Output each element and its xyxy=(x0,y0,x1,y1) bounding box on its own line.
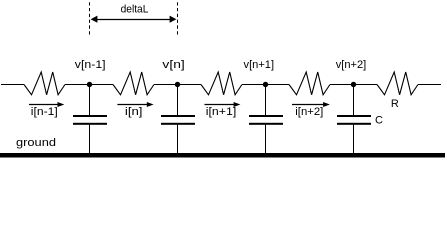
current label i[n+1] xyxy=(206,106,237,118)
wire left lead xyxy=(1,84,24,86)
current arrow i[n+1] xyxy=(205,102,241,107)
current arrow i[n-1] xyxy=(29,102,64,107)
deltaL label xyxy=(121,4,149,16)
capacitor at node v[n-1] : plates xyxy=(73,115,107,125)
capacitor at node v[n-1] : bottom wire xyxy=(89,125,91,154)
resistor R value label xyxy=(391,98,399,110)
node v[n+2] label xyxy=(336,59,367,71)
wire resistor1 to node v[n-1] xyxy=(65,84,113,86)
node v[n+1] label xyxy=(244,59,275,71)
node v[n] junction dot xyxy=(175,82,180,87)
deltaL dimension arrow xyxy=(91,16,177,23)
resistor (series segment 1) xyxy=(24,72,65,95)
node v[n-1] junction dot xyxy=(87,82,92,87)
resistor (series segment 4) xyxy=(289,72,330,95)
capacitor C at node v[n+2] : top wire xyxy=(353,85,355,116)
wire resistor2 to node v[n] xyxy=(154,84,201,86)
capacitor at node v[n] : bottom wire xyxy=(177,125,179,154)
node v[n] label xyxy=(162,59,184,71)
capacitor at node v[n] : top wire xyxy=(177,85,179,116)
current label i[n] xyxy=(125,106,143,118)
wire right lead xyxy=(418,84,441,86)
capacitor at node v[n+1] : bottom wire xyxy=(265,125,267,154)
svg-text:i[n+1]: i[n+1] xyxy=(206,106,237,118)
capacitor at node v[n] : plates xyxy=(161,115,195,125)
wire resistor3 to node v[n+1] xyxy=(242,84,289,86)
current label i[n+2] xyxy=(295,106,323,118)
wire resistor4 to node v[n+2] xyxy=(330,84,377,86)
svg-text:i[n-1]: i[n-1] xyxy=(31,106,58,118)
svg-text:v[n]: v[n] xyxy=(162,59,184,71)
capacitor at node v[n-1] : top wire xyxy=(89,85,91,116)
svg-text:R: R xyxy=(391,98,399,110)
ground label xyxy=(16,137,56,149)
current arrow i[n] xyxy=(117,102,153,107)
capacitor C value label xyxy=(375,115,383,127)
capacitor C at node v[n+2] : plates xyxy=(337,115,371,125)
current arrow i[n+2] xyxy=(292,102,330,107)
svg-text:C: C xyxy=(375,115,383,127)
svg-text:v[n+1]: v[n+1] xyxy=(244,59,275,71)
node v[n+2] junction dot xyxy=(351,82,356,87)
dashed extension line at node v[n-1] xyxy=(89,2,91,35)
capacitor C at node v[n+2] : bottom wire xyxy=(353,125,355,154)
node v[n-1] label xyxy=(75,59,106,71)
node v[n+1] junction dot xyxy=(263,82,268,87)
resistor (series segment 2) xyxy=(113,72,154,95)
svg-text:v[n-1]: v[n-1] xyxy=(75,59,106,71)
svg-text:deltaL: deltaL xyxy=(121,4,149,16)
svg-text:i[n+2]: i[n+2] xyxy=(295,106,323,118)
current label i[n-1] xyxy=(31,106,58,118)
capacitor at node v[n+1] : plates xyxy=(249,115,283,125)
ground rail xyxy=(0,153,445,158)
capacitor at node v[n+1] : top wire xyxy=(265,85,267,116)
svg-text:v[n+2]: v[n+2] xyxy=(336,59,367,71)
dashed extension line at node v[n] xyxy=(177,2,179,35)
svg-text:i[n]: i[n] xyxy=(125,106,143,118)
resistor R xyxy=(377,72,418,95)
resistor (series segment 3) xyxy=(201,72,242,95)
svg-text:ground: ground xyxy=(16,137,56,149)
